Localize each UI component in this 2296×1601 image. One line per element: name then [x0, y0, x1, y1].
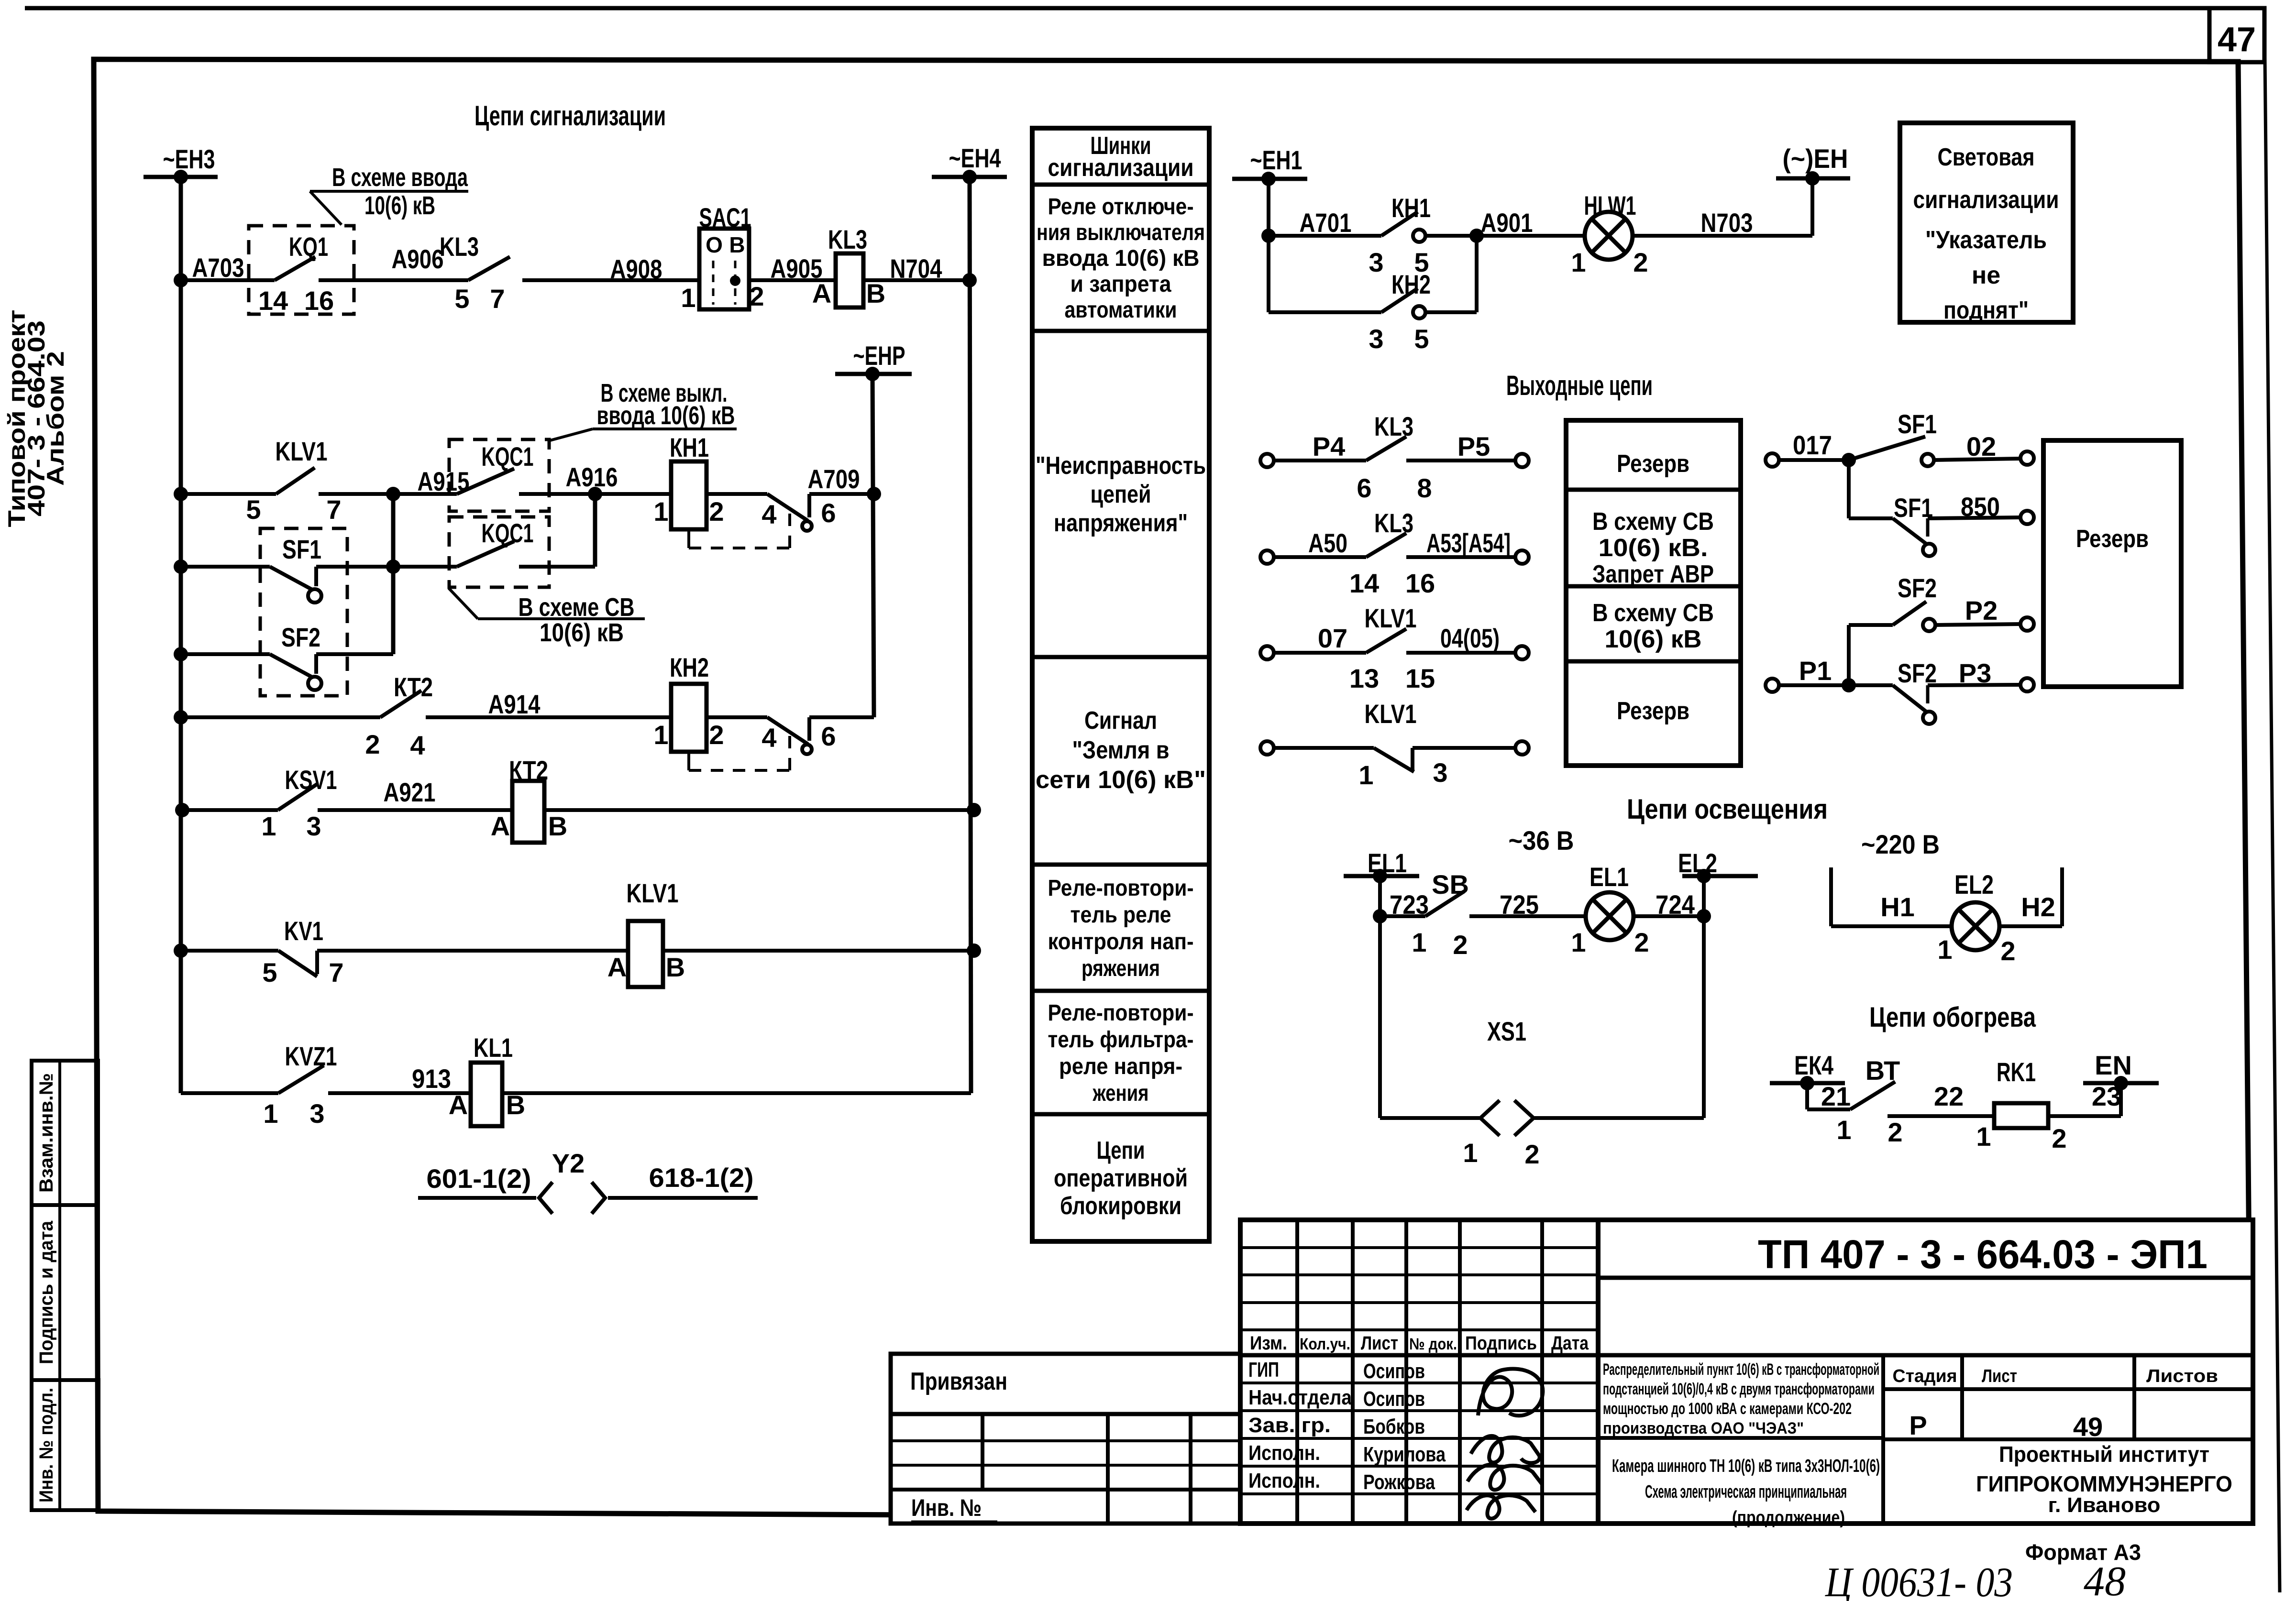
bus ~EH3 — [143, 175, 218, 179]
relay contact KH2 3-5 — [1269, 310, 1381, 314]
svg-text:ния выключателя: ния выключателя — [1037, 220, 1205, 245]
svg-text:А703: А703 — [192, 252, 244, 283]
wire N703 vertical to EH bus — [1810, 178, 1814, 236]
wire N703 — [1633, 234, 1812, 238]
svg-text:10(6) кВ: 10(6) кВ — [364, 191, 435, 220]
svg-text:16: 16 — [1405, 568, 1435, 598]
svg-text:автоматики: автоматики — [1065, 297, 1177, 323]
svg-text:поднят": поднят" — [1943, 296, 2029, 324]
svg-text:Резерв: Резерв — [1617, 450, 1689, 478]
svg-text:А916: А916 — [566, 462, 618, 492]
relay contact KH2 4-6 — [706, 715, 767, 719]
svg-text:2: 2 — [1453, 930, 1468, 960]
svg-text:цепей: цепей — [1091, 481, 1151, 508]
svg-text:КН2: КН2 — [670, 652, 709, 682]
svg-text:KLV1: KLV1 — [1365, 699, 1417, 729]
wire 220V left stub — [1829, 867, 1833, 926]
svg-text:1: 1 — [1412, 927, 1426, 957]
wire A906 — [354, 278, 468, 282]
svg-text:Подпись и дата: Подпись и дата — [36, 1220, 57, 1364]
title block Привязан box — [891, 1354, 1240, 1414]
svg-text:KL3: KL3 — [1374, 411, 1413, 441]
svg-text:1: 1 — [653, 720, 668, 750]
svg-text:Резерв: Резерв — [1617, 697, 1689, 725]
svg-text:Осипов: Осипов — [1363, 1360, 1425, 1383]
svg-text:В: В — [548, 811, 567, 841]
svg-text:не: не — [1972, 262, 2000, 289]
svg-text:15: 15 — [1405, 663, 1435, 693]
svg-text:Исполн.: Исполн. — [1248, 1441, 1320, 1465]
node N704 junction — [962, 273, 977, 287]
svg-text:8: 8 — [1417, 473, 1432, 503]
node EHP junction — [865, 367, 880, 381]
node EH4 junction — [962, 170, 977, 184]
svg-text:~36 В: ~36 В — [1509, 825, 1574, 855]
svg-text:47: 47 — [2218, 21, 2256, 59]
node A901 junction — [1469, 229, 1484, 243]
svg-text:618-1(2): 618-1(2) — [649, 1162, 754, 1193]
svg-text:1: 1 — [653, 496, 668, 526]
bus ~EH1 — [1232, 177, 1307, 181]
output destination box column — [1566, 420, 1741, 766]
svg-text:А: А — [812, 278, 831, 308]
thermal contact BT 21-22 — [1807, 1108, 1850, 1111]
svg-text:сети 10(6) кВ": сети 10(6) кВ" — [1036, 766, 1206, 794]
breaker contact SF1 — [181, 565, 270, 569]
svg-text:2: 2 — [709, 720, 724, 750]
node A916 junction — [588, 487, 602, 501]
annotation box Световая сигнализации — [1900, 123, 2073, 322]
svg-text:Лист: Лист — [1982, 1366, 2017, 1386]
wire KLV1 coil to right bus — [663, 949, 974, 953]
svg-text:сигнализации: сигнализации — [1913, 186, 2059, 214]
svg-text:2: 2 — [749, 281, 764, 311]
node EL2 wire junction — [1697, 909, 1711, 923]
svg-text:RK1: RK1 — [1997, 1057, 2036, 1087]
relay contact KSV1 1-3 — [181, 808, 278, 812]
svg-text:Подпись: Подпись — [1465, 1333, 1537, 1354]
svg-text:EL2: EL2 — [1954, 869, 1994, 899]
svg-text:SF1: SF1 — [1894, 493, 1933, 523]
svg-text:А: А — [607, 952, 627, 982]
svg-text:~ЕН1: ~ЕН1 — [1250, 145, 1303, 175]
svg-text:1: 1 — [1358, 760, 1373, 790]
page top edge line — [25, 6, 2264, 11]
annotation box Резерв right — [2043, 440, 2181, 687]
wire A703 — [181, 278, 275, 282]
svg-text:13: 13 — [1349, 663, 1379, 693]
wire left bus vertical — [179, 177, 183, 1093]
svg-text:SF1: SF1 — [1898, 409, 1937, 439]
svg-text:3: 3 — [1369, 324, 1383, 354]
svg-text:и запрета: и запрета — [1071, 272, 1171, 297]
wire EL1 left vertical — [1378, 876, 1382, 1118]
svg-text:49: 49 — [2073, 1412, 2103, 1442]
svg-text:Взам.инв.№: Взам.инв.№ — [36, 1073, 57, 1193]
svg-text:Камера шинного ТН 10(6) кВ тип: Камера шинного ТН 10(6) кВ типа 3х3НОЛ-1… — [1612, 1456, 1880, 1476]
svg-text:ГИП: ГИП — [1248, 1358, 1279, 1382]
svg-text:"Земля в: "Земля в — [1072, 736, 1170, 764]
wire H1 — [1831, 924, 1952, 928]
svg-text:Р2: Р2 — [1965, 595, 1998, 625]
svg-text:725: 725 — [1500, 889, 1539, 920]
svg-text:02: 02 — [1966, 431, 1996, 461]
bus EN — [2083, 1081, 2159, 1086]
svg-text:10(6) кВ: 10(6) кВ — [1605, 625, 1702, 653]
svg-text:1: 1 — [681, 283, 695, 313]
svg-text:2: 2 — [1633, 247, 1648, 277]
svg-text:7: 7 — [490, 284, 505, 314]
svg-text:2: 2 — [709, 496, 724, 526]
relay contact KLV1 13-15 output — [1260, 646, 1274, 659]
svg-text:KLV1: KLV1 — [276, 436, 328, 466]
svg-text:2: 2 — [365, 729, 380, 759]
wire H2 — [1999, 924, 2062, 928]
node row6 right junction — [967, 803, 981, 817]
svg-text:КТ2: КТ2 — [394, 672, 433, 702]
svg-text:Выходные цепи: Выходные цепи — [1506, 370, 1653, 401]
svg-text:1: 1 — [1571, 927, 1586, 957]
title block stage cells — [1883, 1387, 2253, 1391]
wire EL2 right vertical — [1702, 876, 1706, 1118]
svg-text:тель фильтра-: тель фильтра- — [1048, 1027, 1194, 1053]
relay contact KL3 6-8 output — [1260, 454, 1274, 467]
svg-text:О: О — [706, 232, 723, 257]
svg-text:6: 6 — [821, 498, 836, 528]
svg-text:6: 6 — [821, 721, 836, 751]
svg-text:ТП 407 - 3 - 664.03 - ЭП1: ТП 407 - 3 - 664.03 - ЭП1 — [1758, 1232, 2208, 1277]
svg-text:KL1: KL1 — [474, 1032, 513, 1063]
svg-text:А921: А921 — [384, 777, 436, 807]
svg-text:Изм.: Изм. — [1250, 1333, 1287, 1354]
sheet number box — [2209, 8, 2264, 62]
svg-text:сигнализации: сигнализации — [1048, 154, 1194, 182]
svg-text:2: 2 — [1524, 1139, 1539, 1169]
svg-text:мощностью до 1000 кВА с камера: мощностью до 1000 кВА с камерами КСО-202 — [1603, 1400, 1852, 1418]
wire A905 — [749, 278, 836, 282]
svg-text:Схема электрическая принципиал: Схема электрическая принципиальная — [1645, 1482, 1847, 1502]
stamp box Инв. № подл. — [32, 1380, 99, 1510]
node SF bus junction row3 — [386, 559, 400, 574]
svg-text:Кол.уч.: Кол.уч. — [1300, 1335, 1350, 1353]
svg-text:Р1: Р1 — [1799, 656, 1832, 686]
relay contact KH1 3-5 — [1269, 234, 1381, 238]
svg-text:ряжения: ряжения — [1082, 956, 1160, 981]
svg-text:Инв. № подл.: Инв. № подл. — [36, 1388, 57, 1502]
breaker contact SF1 017-02 — [1766, 453, 1779, 467]
svg-text:Бобков: Бобков — [1363, 1415, 1425, 1438]
svg-text:1: 1 — [1937, 934, 1952, 965]
bus EL2 — [1682, 874, 1758, 878]
relay contact KV1 5-7 closed — [181, 949, 278, 953]
wire EK4 drop — [1805, 1083, 1809, 1109]
svg-text:Осипов: Осипов — [1363, 1387, 1425, 1411]
svg-text:850: 850 — [1961, 492, 2000, 522]
bus (~)EH — [1776, 176, 1850, 181]
svg-text:KL3: KL3 — [828, 224, 867, 254]
svg-text:"Неисправность: "Неисправность — [1036, 452, 1206, 480]
svg-text:21: 21 — [1821, 1081, 1851, 1111]
svg-text:жения: жения — [1093, 1081, 1149, 1106]
svg-text:В схеме ввода: В схеме ввода — [332, 163, 468, 192]
svg-text:Световая: Световая — [1938, 143, 2035, 171]
svg-text:~220 В: ~220 В — [1861, 829, 1940, 859]
svg-text:Проектный институт: Проектный институт — [1999, 1442, 2209, 1467]
svg-text:14: 14 — [258, 285, 288, 316]
relay contact KH1 4-6 — [706, 492, 767, 496]
svg-text:4: 4 — [410, 730, 425, 760]
signature squiggle 3 — [1468, 1465, 1542, 1490]
mechanical link KH2 — [687, 752, 690, 770]
svg-text:Листов: Листов — [2146, 1366, 2218, 1386]
node SB junction — [1373, 909, 1387, 923]
node row5 left junction — [174, 710, 188, 724]
svg-text:04(05): 04(05) — [1440, 623, 1500, 653]
svg-text:SF1: SF1 — [282, 534, 321, 564]
svg-text:SF2: SF2 — [1898, 573, 1937, 603]
bus EL1 — [1344, 874, 1419, 878]
legend column box Шинки сигнализации — [1032, 128, 1209, 1241]
svg-text:3: 3 — [1433, 757, 1447, 788]
svg-text:EL1: EL1 — [1590, 862, 1629, 892]
wire KL1 coil to right bus corner — [502, 1091, 971, 1095]
breaker contact SF2 — [181, 652, 270, 656]
svg-text:В схему СВ: В схему СВ — [1592, 508, 1714, 536]
svg-text:подстанцией 10(6)/0,4 кВ с дву: подстанцией 10(6)/0,4 кВ с двумя трансфо… — [1603, 1380, 1875, 1398]
svg-text:КН1: КН1 — [670, 432, 709, 462]
svg-text:Стадия: Стадия — [1893, 1366, 1957, 1386]
svg-text:1: 1 — [1836, 1115, 1851, 1145]
wire N704 — [863, 278, 970, 282]
svg-text:В: В — [666, 952, 685, 982]
svg-text:напряжения": напряжения" — [1054, 509, 1188, 537]
svg-text:Альбом 2: Альбом 2 — [42, 351, 69, 486]
svg-text:Курилова: Курилова — [1363, 1443, 1446, 1466]
svg-text:Р4: Р4 — [1313, 431, 1346, 461]
signature squiggle 2 — [1471, 1436, 1540, 1463]
svg-text:А709: А709 — [808, 464, 860, 494]
svg-text:ввода 10(6) кВ: ввода 10(6) кВ — [597, 401, 735, 430]
node row7 right junction — [967, 943, 981, 958]
svg-text:производства ОАО "ЧЭАЗ": производства ОАО "ЧЭАЗ" — [1603, 1419, 1804, 1437]
svg-text:N703: N703 — [1701, 208, 1753, 238]
svg-text:Реле-повтори-: Реле-повтори- — [1048, 1000, 1194, 1026]
node A915 junction — [386, 487, 400, 501]
svg-text:Привязан: Привязан — [910, 1368, 1007, 1395]
svg-text:Зав. гр.: Зав. гр. — [1248, 1414, 1331, 1437]
svg-text:Сигнал: Сигнал — [1084, 707, 1157, 735]
svg-text:Распределительный пункт 10(6): Распределительный пункт 10(6) кВ с транс… — [1603, 1360, 1879, 1379]
signature squiggle 4 — [1467, 1495, 1535, 1519]
wire KT2 coil to right bus — [544, 808, 974, 812]
svg-text:контроля нап-: контроля нап- — [1048, 929, 1194, 954]
node row1 left junction — [174, 273, 188, 287]
svg-text:~ЕНР: ~ЕНР — [853, 340, 905, 371]
svg-text:ГИПРОКОММУНЭНЕРГО: ГИПРОКОММУНЭНЕРГО — [1976, 1471, 2232, 1496]
page right edge line — [2264, 8, 2280, 1592]
svg-text:KSV1: KSV1 — [285, 765, 337, 795]
svg-text:22: 22 — [1934, 1081, 1964, 1111]
svg-text:А701: А701 — [1300, 208, 1352, 238]
svg-text:реле напря-: реле напря- — [1059, 1054, 1182, 1079]
breaker contact SF2 P3 — [1766, 679, 1779, 692]
svg-text:№ док.: № док. — [1409, 1335, 1457, 1353]
svg-text:07: 07 — [1318, 623, 1347, 653]
svg-text:7: 7 — [329, 957, 343, 987]
wire EN rise — [2119, 1083, 2123, 1116]
relay contact KL3 14-16 output — [1260, 550, 1274, 564]
node A709 junction — [867, 487, 881, 501]
svg-text:Исполн.: Исполн. — [1248, 1469, 1320, 1492]
title block small grid left — [891, 1414, 1240, 1524]
svg-text:А901: А901 — [1481, 208, 1533, 238]
svg-text:3: 3 — [1369, 247, 1383, 277]
relay contact KVZ1 1-3 — [181, 1091, 278, 1095]
stamp box Подпись и дата — [32, 1205, 98, 1380]
relay contact KQ1 — [249, 226, 354, 314]
svg-text:1: 1 — [263, 1098, 278, 1129]
svg-text:КН1: КН1 — [1391, 193, 1431, 223]
svg-text:7: 7 — [326, 494, 341, 525]
svg-text:724: 724 — [1656, 889, 1695, 920]
svg-text:10(6) кВ: 10(6) кВ — [540, 618, 624, 647]
signature squiggle 1 — [1478, 1369, 1543, 1415]
relay contact KQC1 upper — [449, 439, 549, 511]
svg-text:N704: N704 — [890, 253, 942, 284]
breaker contact SF2 P2 — [1849, 623, 1893, 627]
title block main table — [1240, 1220, 2253, 1524]
svg-text:Рожкова: Рожкова — [1363, 1470, 1435, 1494]
svg-text:А914: А914 — [488, 689, 541, 719]
svg-text:5: 5 — [1414, 324, 1429, 354]
svg-text:А: А — [449, 1090, 468, 1120]
wire A916 return vertical — [593, 494, 597, 567]
svg-text:KV1: KV1 — [284, 916, 323, 946]
wire 220V right stub — [2060, 867, 2064, 926]
svg-text:Реле отключе-: Реле отключе- — [1048, 194, 1194, 219]
svg-text:KQC1: KQC1 — [482, 441, 534, 472]
svg-text:6: 6 — [1357, 473, 1371, 503]
svg-text:ВТ: ВТ — [1865, 1055, 1900, 1086]
svg-text:(~)ЕН: (~)ЕН — [1783, 143, 1848, 174]
svg-text:3: 3 — [306, 811, 321, 841]
svg-text:"Указатель: "Указатель — [1925, 226, 2047, 254]
svg-text:913: 913 — [412, 1064, 451, 1094]
node row4 left junction — [174, 647, 188, 661]
svg-text:SF2: SF2 — [281, 622, 320, 652]
bus ~EHP — [835, 372, 912, 376]
svg-text:оперативной: оперативной — [1054, 1164, 1188, 1192]
svg-text:Цепи освещения: Цепи освещения — [1627, 794, 1828, 825]
svg-text:4: 4 — [762, 499, 776, 529]
wire lighting bottom loop right — [1534, 1116, 1704, 1120]
svg-text:Р3: Р3 — [1959, 658, 1992, 688]
svg-text:Н1: Н1 — [1880, 892, 1915, 922]
svg-text:48: 48 — [2084, 1558, 2126, 1601]
svg-text:Лист: Лист — [1361, 1333, 1398, 1354]
svg-text:В: В — [866, 278, 885, 308]
wire 618-1(2) — [608, 1196, 758, 1200]
svg-text:1: 1 — [1463, 1138, 1478, 1168]
svg-text:А50: А50 — [1308, 528, 1347, 558]
svg-text:Цепи: Цепи — [1097, 1137, 1145, 1164]
svg-text:Цепи обогрева: Цепи обогрева — [1869, 1002, 2036, 1033]
svg-text:10(6) кВ.: 10(6) кВ. — [1599, 534, 1708, 562]
svg-text:2: 2 — [2052, 1123, 2066, 1153]
wire SF1 branch vertical — [1847, 460, 1851, 518]
node row3 left junction — [174, 559, 188, 574]
svg-text:5: 5 — [262, 957, 277, 987]
svg-text:XS1: XS1 — [1487, 1016, 1526, 1046]
svg-text:KL3: KL3 — [1374, 508, 1413, 538]
svg-text:Дата: Дата — [1551, 1333, 1589, 1354]
svg-text:723: 723 — [1390, 889, 1429, 920]
switch SB 1-2 — [1380, 914, 1425, 918]
svg-text:А906: А906 — [392, 244, 444, 274]
svg-text:В схему СВ: В схему СВ — [1592, 599, 1714, 627]
wire 23 — [2048, 1114, 2121, 1118]
svg-text:В: В — [729, 232, 745, 257]
svg-text:14: 14 — [1349, 568, 1379, 598]
svg-text:тель реле: тель реле — [1071, 902, 1171, 928]
svg-text:KQ1: KQ1 — [289, 231, 328, 262]
lamp HLW1 — [1477, 234, 1585, 238]
svg-text:Нач.отдела: Нач.отдела — [1248, 1386, 1352, 1409]
wire 601-1(2) — [418, 1196, 536, 1200]
svg-text:3: 3 — [309, 1098, 324, 1129]
svg-text:2: 2 — [2000, 936, 2015, 966]
svg-text:2: 2 — [1888, 1117, 1902, 1147]
wire lighting bottom loop left — [1380, 1116, 1479, 1120]
svg-text:Реле-повтори-: Реле-повтори- — [1048, 876, 1194, 901]
svg-text:5: 5 — [454, 284, 469, 314]
relay contact KQC1 lower — [449, 517, 549, 587]
svg-text:А53[А54]: А53[А54] — [1426, 528, 1511, 558]
svg-text:KVZ1: KVZ1 — [285, 1041, 337, 1071]
svg-text:601-1(2): 601-1(2) — [427, 1163, 531, 1194]
svg-text:ЕК4: ЕК4 — [1794, 1050, 1833, 1080]
node EH1 junction — [1261, 172, 1276, 186]
svg-text:Ц 00631- 03: Ц 00631- 03 — [1825, 1559, 2013, 1601]
svg-text:Инв. №: Инв. № — [911, 1494, 982, 1521]
node EH junction — [1805, 171, 1820, 186]
title block description cell — [1598, 1353, 2253, 1358]
svg-text:SB: SB — [1432, 869, 1469, 899]
node KH1 branch junction — [1261, 229, 1276, 243]
node row7 left junction — [174, 943, 188, 958]
svg-text:блокировки: блокировки — [1060, 1192, 1181, 1220]
node row2 left junction — [174, 487, 188, 501]
relay contact KLV1 1-3 output closed — [1260, 741, 1274, 755]
wire SF auxiliary bus — [391, 494, 396, 654]
svg-text:~ЕН3: ~ЕН3 — [163, 144, 215, 174]
dashed box SF1 SF2 — [260, 528, 347, 696]
svg-text:(продолжение): (продолжение) — [1732, 1508, 1845, 1528]
wire 724 — [1634, 914, 1704, 918]
svg-text:1: 1 — [261, 811, 276, 841]
svg-text:ввода 10(6) кВ: ввода 10(6) кВ — [1042, 246, 1200, 271]
relay contact KT2 2-4 — [181, 715, 380, 719]
svg-text:2: 2 — [1634, 927, 1649, 957]
svg-text:Цепи сигнализации: Цепи сигнализации — [475, 100, 666, 132]
svg-text:KLV1: KLV1 — [627, 878, 679, 908]
stamp box Взам.инв.№ — [32, 1061, 98, 1205]
breaker contact SF1 850 — [1849, 516, 1893, 520]
bus EK4 — [1770, 1081, 1845, 1086]
svg-text:Резерв: Резерв — [2076, 525, 2149, 553]
svg-text:Р5: Р5 — [1457, 431, 1490, 461]
svg-text:1: 1 — [1976, 1121, 1991, 1151]
